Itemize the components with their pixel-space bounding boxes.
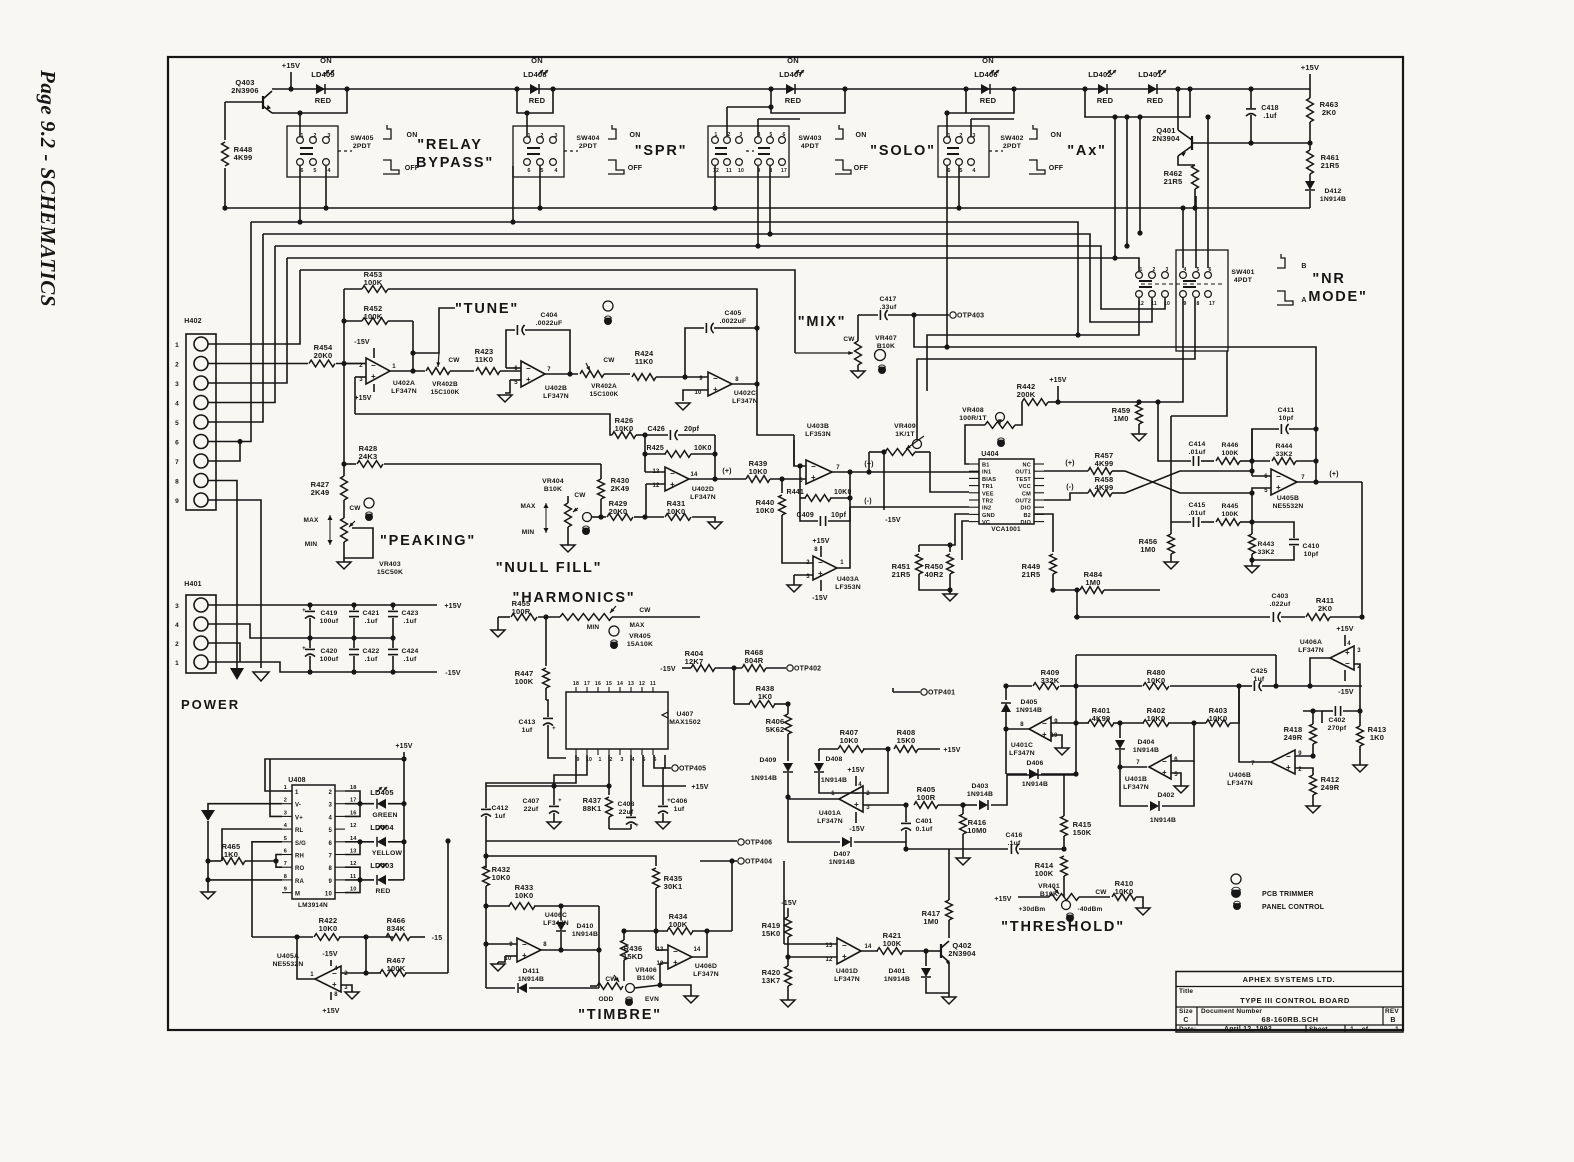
capacitor C416 .1uf: [903, 832, 1066, 854]
svg-text:LF347N: LF347N: [1298, 647, 1324, 654]
border frame: [168, 57, 1403, 1030]
ground (R456): [1164, 562, 1178, 569]
svg-text:MIN: MIN: [305, 541, 318, 548]
svg-text:5: 5: [313, 168, 316, 174]
svg-text:7: 7: [284, 861, 287, 867]
svg-text:100uf: 100uf: [320, 656, 339, 663]
svg-text:9: 9: [175, 498, 179, 505]
svg-text:15: 15: [606, 681, 612, 687]
wire stub y=335: [927, 335, 1078, 391]
resistor R456 1M0: [1139, 416, 1175, 562]
svg-text:7: 7: [175, 459, 179, 466]
svg-text:CW: CW: [574, 492, 586, 499]
ground (R412): [1306, 806, 1320, 813]
svg-text:12: 12: [350, 861, 357, 867]
ground (VR406): [684, 996, 698, 1003]
svg-text:D408: D408: [825, 756, 842, 763]
resistor R480 10K0: [1076, 668, 1242, 689]
resistor R404 12K7: [660, 649, 742, 673]
svg-text:OTP401: OTP401: [928, 690, 955, 697]
resistor R417 1M0: [922, 849, 953, 938]
svg-text:−: −: [1345, 659, 1350, 668]
svg-text:CW: CW: [349, 505, 361, 512]
svg-text:5: 5: [1264, 488, 1268, 494]
LED LD408: [523, 56, 548, 105]
svg-text:D401: D401: [888, 968, 905, 975]
svg-text:-15V: -15V: [849, 826, 865, 833]
svg-text:1uf: 1uf: [674, 806, 685, 813]
svg-text:RED: RED: [785, 96, 802, 105]
resistor R420 13K7: [762, 957, 792, 1000]
svg-text:"PEAKING": "PEAKING": [380, 533, 476, 549]
svg-text:-15: -15: [432, 935, 443, 942]
wire R442 bus to SW401 pin8: [1058, 298, 1183, 405]
svg-text:DIO: DIO: [1020, 506, 1031, 512]
svg-text:VR405: VR405: [629, 633, 651, 640]
svg-text:30K1: 30K1: [664, 882, 683, 891]
resistor R461 21R5: [1307, 150, 1340, 181]
svg-text:16: 16: [350, 810, 357, 816]
resistor R451 21R5: [892, 545, 950, 590]
svg-text:U401D: U401D: [836, 968, 858, 975]
label MIX: [798, 314, 847, 330]
resistor R466 834K: [386, 916, 442, 942]
wire NR bus vertical b: [1124, 114, 1129, 248]
svg-text:3: 3: [866, 805, 870, 811]
wire U408 pin1 loop: [265, 756, 407, 791]
svg-text:2N3904: 2N3904: [948, 949, 976, 958]
svg-text:IN1: IN1: [982, 470, 991, 476]
switch SW403 4PDT: [708, 126, 822, 177]
svg-text:100K: 100K: [883, 939, 902, 948]
LED LD409: [311, 56, 335, 105]
svg-text:834K: 834K: [387, 924, 406, 933]
svg-text:RED: RED: [1097, 96, 1114, 105]
svg-text:C426: C426: [647, 426, 665, 433]
svg-text:6: 6: [175, 440, 179, 447]
svg-text:9: 9: [1054, 719, 1058, 725]
svg-text:2PDT: 2PDT: [1003, 143, 1022, 150]
ground (U401C): [1055, 748, 1069, 755]
svg-text:C403: C403: [1271, 593, 1288, 600]
svg-text:ON: ON: [320, 56, 332, 65]
label RELAY BYPASS: [416, 137, 494, 171]
svg-text:1: 1: [284, 785, 287, 791]
svg-text:21R5: 21R5: [892, 570, 911, 579]
wire U402A output: [390, 370, 425, 372]
svg-text:3: 3: [1357, 648, 1361, 654]
wire H402 pin6 to bus: [208, 222, 251, 442]
wire H402 pin7: [208, 439, 243, 461]
IC U404 VCA1001: [969, 451, 1044, 533]
svg-text:ON: ON: [856, 132, 867, 139]
svg-text:LF347N: LF347N: [543, 393, 569, 400]
svg-text:VC: VC: [982, 520, 990, 526]
svg-text:3: 3: [328, 803, 332, 809]
svg-text:+: +: [667, 798, 671, 804]
svg-text:7: 7: [836, 465, 840, 471]
svg-text:12: 12: [350, 823, 357, 829]
wire U403A output: [837, 521, 850, 568]
wire R434 node up to OTP404: [729, 858, 734, 931]
svg-text:-40dBm: -40dBm: [1077, 906, 1102, 913]
svg-text:R444: R444: [1275, 443, 1292, 450]
LED LD401: [1138, 70, 1166, 105]
power arrow (U408 V-): [201, 810, 215, 861]
ground (U406C): [491, 964, 505, 971]
resistor R484 1M0: [1053, 570, 1160, 593]
svg-text:LF347N: LF347N: [1123, 784, 1149, 791]
svg-text:150K: 150K: [1073, 828, 1092, 837]
svg-text:RED: RED: [529, 96, 546, 105]
svg-text:TR2: TR2: [982, 499, 993, 505]
svg-text:2: 2: [540, 133, 543, 139]
svg-text:YELLOW: YELLOW: [372, 850, 403, 857]
svg-text:D404: D404: [1137, 739, 1154, 746]
capacitor C418 .1uf: [1212, 86, 1313, 145]
wire SW403 pins up: [727, 104, 800, 136]
svg-text:.0022uF: .0022uF: [536, 320, 563, 327]
diode D402 1N914B: [1120, 761, 1194, 824]
svg-text:1N914B: 1N914B: [1320, 196, 1346, 203]
op-amp U405A NE5532N: [273, 937, 366, 1015]
wire U408 V+: [270, 759, 282, 816]
svg-text:RED: RED: [980, 96, 997, 105]
wire crossover X: [1125, 471, 1180, 493]
resistor R450 40R2: [925, 554, 954, 594]
svg-text:D402: D402: [1157, 792, 1174, 799]
svg-text:B10K: B10K: [544, 486, 562, 493]
svg-text:1: 1: [175, 660, 179, 667]
svg-text:VR409: VR409: [894, 423, 916, 430]
svg-text:-15V: -15V: [781, 900, 797, 907]
svg-text:BYPASS": BYPASS": [416, 155, 494, 171]
resistor R468 804R: [742, 648, 786, 671]
svg-text:4: 4: [631, 757, 634, 763]
svg-text:C405: C405: [724, 310, 741, 317]
svg-text:C423: C423: [401, 610, 418, 617]
svg-text:.1uf: .1uf: [404, 618, 417, 625]
svg-text:6: 6: [1264, 474, 1268, 480]
svg-text:1N914B: 1N914B: [572, 931, 598, 938]
svg-text:100K: 100K: [1221, 511, 1238, 518]
capacitor C409 10pf: [796, 495, 852, 526]
test point OTP403: [950, 312, 984, 320]
wire U402B output: [545, 373, 578, 375]
svg-text:6: 6: [284, 849, 287, 855]
svg-text:Size: Size: [1179, 1008, 1193, 1015]
capacitor C410 10pf: [1249, 522, 1319, 563]
svg-text:21R5: 21R5: [1164, 177, 1183, 186]
wire U402C output: [732, 381, 794, 435]
svg-text:"NULL FILL": "NULL FILL": [496, 560, 603, 576]
IC U408 LM3914N: [282, 777, 357, 909]
svg-text:9: 9: [576, 757, 579, 763]
svg-text:RL: RL: [295, 828, 304, 834]
wire SW402 pin5 down: [956, 166, 961, 211]
svg-text:(+): (+): [1065, 460, 1074, 467]
svg-text:+15V: +15V: [282, 61, 301, 70]
resistor R442 200K: [1017, 382, 1061, 405]
label NR MODE: [1308, 271, 1367, 305]
resistor R447 100K: [515, 614, 550, 700]
wire U408 pin2/right stubs: [345, 791, 363, 893]
svg-text:10: 10: [1050, 733, 1058, 739]
svg-text:OUT2: OUT2: [1015, 499, 1031, 505]
svg-text:2K49: 2K49: [311, 488, 330, 497]
ground (VR407): [851, 371, 865, 378]
capacitor C425 1uf: [1239, 668, 1279, 691]
svg-text:10K0: 10K0: [756, 506, 775, 515]
diode D404 1N914B: [1115, 723, 1159, 767]
svg-text:"SPR": "SPR": [635, 143, 688, 159]
resistor R418 249R: [1284, 708, 1322, 755]
resistor R436 15KD: [621, 931, 644, 981]
svg-text:1: 1: [840, 560, 844, 566]
svg-text:U406A: U406A: [1300, 639, 1322, 646]
svg-text:11K0: 11K0: [475, 355, 493, 364]
ground (U405A): [345, 992, 359, 999]
power +15V (U408): [395, 743, 412, 880]
svg-text:.33uf: .33uf: [880, 304, 897, 311]
svg-text:C402: C402: [1328, 717, 1345, 724]
svg-text:1M0: 1M0: [1085, 578, 1100, 587]
svg-text:4K99: 4K99: [234, 153, 253, 162]
diode D412 1N914B: [1305, 181, 1346, 208]
svg-text:D406: D406: [1026, 760, 1043, 767]
svg-text:H401: H401: [184, 581, 202, 588]
svg-text:1: 1: [947, 133, 950, 139]
resistor R445 100K: [1216, 493, 1255, 525]
svg-text:1N914B: 1N914B: [518, 976, 544, 983]
svg-text:−: −: [811, 462, 816, 471]
resistor R419 15K0: [762, 900, 797, 957]
wire +15V rail top (y=89): [272, 88, 1310, 90]
svg-text:2K0: 2K0: [1322, 108, 1336, 117]
svg-text:2: 2: [344, 971, 348, 977]
svg-text:10K0: 10K0: [492, 873, 511, 882]
svg-text:VR403: VR403: [379, 561, 401, 568]
svg-text:2: 2: [175, 641, 179, 648]
svg-text:3: 3: [175, 381, 179, 388]
svg-text:8: 8: [1020, 722, 1024, 728]
svg-text:SW404: SW404: [576, 135, 599, 142]
svg-text:OFF: OFF: [628, 165, 643, 172]
LED LD405 GREEN: [345, 787, 407, 819]
svg-text:LM3914N: LM3914N: [298, 902, 328, 909]
wire node to U405B inputs: [1180, 468, 1271, 495]
svg-text:LD403: LD403: [370, 861, 394, 870]
svg-text:U402B: U402B: [545, 385, 567, 392]
svg-text:DIO: DIO: [1020, 520, 1031, 526]
resistor R467 100K: [363, 956, 448, 976]
trimmer VR406 B10K (TIMBRE): [590, 967, 691, 1006]
op-amp U406C LF347N: [483, 906, 568, 988]
svg-text:1: 1: [300, 133, 303, 139]
svg-text:A: A: [1301, 297, 1306, 304]
trimmer VR401 B10K (THRESHOLD): [1019, 883, 1110, 922]
resistor R455 100R: [498, 599, 560, 620]
wire U406C output loop: [541, 906, 602, 988]
svg-text:8: 8: [328, 866, 332, 872]
svg-text:PCB TRIMMER: PCB TRIMMER: [1262, 891, 1314, 898]
power +15V (U407): [643, 755, 709, 791]
svg-text:3: 3: [620, 757, 623, 763]
svg-text:−: −: [1162, 757, 1167, 766]
wire R484 node down: [1074, 590, 1079, 620]
svg-text:LF347N: LF347N: [1009, 750, 1035, 757]
svg-text:.0022uF: .0022uF: [720, 318, 747, 325]
resistor R432 10K0: [483, 865, 511, 909]
svg-text:U407: U407: [676, 711, 693, 718]
resistor R401 4K99: [1076, 706, 1123, 726]
svg-text:(+): (+): [722, 468, 731, 475]
trimmer VR405 15A10K (HARMONICS): [560, 606, 700, 649]
resistor R457 4K99: [1088, 451, 1125, 474]
svg-text:14: 14: [690, 472, 698, 478]
svg-text:1: 1: [1395, 1026, 1399, 1033]
svg-text:18: 18: [350, 785, 357, 791]
label THRESHOLD: [1001, 919, 1125, 935]
wire U407 pin9 down: [486, 755, 576, 786]
wire R467 to OTP406 line: [445, 838, 450, 973]
svg-text:+: +: [673, 958, 678, 967]
wire TUNE to R426: [355, 414, 612, 435]
svg-text:+15V: +15V: [322, 1008, 339, 1015]
svg-text:.1uf: .1uf: [1008, 840, 1021, 847]
svg-text:VR408: VR408: [962, 407, 984, 414]
capacitor C413 1uf: [518, 700, 566, 758]
svg-text:C424: C424: [401, 648, 418, 655]
label Ax: [1067, 143, 1107, 159]
svg-text:SW402: SW402: [1000, 135, 1023, 142]
svg-text:U402D: U402D: [692, 486, 714, 493]
svg-text:9: 9: [328, 879, 332, 885]
page label 'Page 9.2 - SCHEMATICS': [36, 69, 60, 307]
wire U405B out to R411 node: [1359, 482, 1364, 620]
resistor R449 21R5: [1022, 514, 1057, 593]
svg-text:10: 10: [738, 168, 744, 174]
resistor R416 10M0: [960, 805, 987, 858]
wire H401 pin4: [208, 624, 393, 638]
svg-text:OFF: OFF: [1049, 165, 1064, 172]
svg-text:April 12, 1993: April 12, 1993: [1224, 1026, 1272, 1033]
legend PCB trimmer / panel control: [1231, 874, 1325, 911]
svg-text:2K49: 2K49: [611, 484, 630, 493]
svg-text:LF347N: LF347N: [1227, 780, 1253, 787]
capacitor C415 .01uf: [1171, 502, 1214, 527]
wire H401 pin2: [208, 643, 240, 662]
ground (H402 pin9): [253, 672, 269, 681]
connector H401: [175, 581, 216, 673]
svg-text:68-160RB.SCH: 68-160RB.SCH: [1262, 1015, 1319, 1024]
op-amp U402A LF347N: [344, 339, 417, 414]
svg-text:CW: CW: [603, 357, 615, 364]
svg-text:"RELAY: "RELAY: [417, 137, 483, 153]
ground (R410): [1136, 908, 1150, 915]
svg-text:10pf: 10pf: [1279, 415, 1294, 422]
svg-text:1: 1: [295, 790, 299, 796]
svg-text:C411: C411: [1278, 407, 1295, 414]
svg-text:(-): (-): [1066, 484, 1074, 491]
capacitor C414 .01uf: [1158, 402, 1214, 466]
ground (U401B): [1174, 786, 1188, 793]
resistor R408 15K0: [894, 728, 961, 754]
svg-text:+: +: [1276, 483, 1281, 492]
svg-text:VR401: VR401: [1038, 883, 1060, 890]
wire SW405 pin1 to loop: [297, 110, 302, 136]
svg-text:R446: R446: [1221, 442, 1238, 449]
wire NR bus vertical a: [1112, 114, 1117, 258]
svg-text:15C50K: 15C50K: [377, 569, 403, 576]
resistor R422 10K0: [252, 916, 393, 940]
svg-text:1: 1: [175, 342, 179, 349]
wire SW401 pin17 down: [1171, 351, 1227, 416]
svg-text:OTP403: OTP403: [957, 313, 984, 320]
ground (R459): [1132, 434, 1146, 441]
label TUNE: [413, 301, 519, 367]
svg-text:5K62: 5K62: [766, 725, 785, 734]
svg-text:+15V: +15V: [1049, 377, 1066, 384]
wire SW404 pin2 up: [524, 110, 529, 136]
svg-text:−: −: [673, 947, 678, 956]
label NULL FILL: [496, 560, 603, 576]
transistor Q401 2N3904: [1152, 86, 1212, 165]
wire y=855 branch: [486, 856, 656, 866]
svg-text:TEST: TEST: [1016, 477, 1031, 483]
wire LD402/LD401 loop: [1082, 86, 1192, 117]
capacitor C417 .33uf: [858, 296, 949, 320]
svg-text:POWER: POWER: [181, 697, 240, 712]
svg-text:OTP404: OTP404: [745, 859, 772, 866]
resistor R407 10K0: [819, 728, 891, 752]
svg-text:1N914B: 1N914B: [1022, 781, 1048, 788]
diode D401 1N914B: [884, 951, 949, 997]
svg-text:RED: RED: [315, 96, 332, 105]
svg-text:C419: C419: [320, 610, 337, 617]
svg-text:10K0: 10K0: [840, 736, 859, 745]
svg-text:C404: C404: [540, 312, 557, 319]
svg-text:CW: CW: [448, 357, 460, 364]
resistor R446 100K: [1216, 442, 1255, 464]
svg-text:D409: D409: [759, 757, 776, 764]
svg-text:M: M: [295, 892, 300, 898]
resistor R402 10K0: [1120, 706, 1197, 726]
wire NR bus y=347: [914, 315, 1316, 429]
test point OTP405: [654, 755, 706, 773]
svg-text:ON: ON: [982, 56, 994, 65]
svg-text:LD404: LD404: [370, 823, 394, 832]
svg-text:+15V: +15V: [691, 784, 708, 791]
svg-text:R443: R443: [1257, 541, 1274, 548]
svg-text:8: 8: [175, 479, 179, 486]
svg-text:U404: U404: [981, 451, 999, 458]
wire U404 VC down: [962, 521, 969, 560]
svg-text:1N914B: 1N914B: [1133, 747, 1159, 754]
svg-text:5: 5: [328, 828, 332, 834]
svg-text:+: +: [558, 798, 562, 804]
test point OTP401: [893, 688, 955, 697]
svg-text:3: 3: [359, 377, 363, 383]
svg-text:6: 6: [1209, 267, 1212, 273]
wire H402 pin1 to bus: [208, 270, 300, 344]
svg-text:MIN: MIN: [587, 624, 600, 631]
wire SW405 pin4 down: [323, 166, 328, 211]
arrows MAX/MIN (PEAKING): [303, 515, 332, 548]
bus line y=246: [275, 246, 1165, 309]
svg-text:1: 1: [831, 791, 835, 797]
svg-text:5: 5: [175, 420, 179, 427]
